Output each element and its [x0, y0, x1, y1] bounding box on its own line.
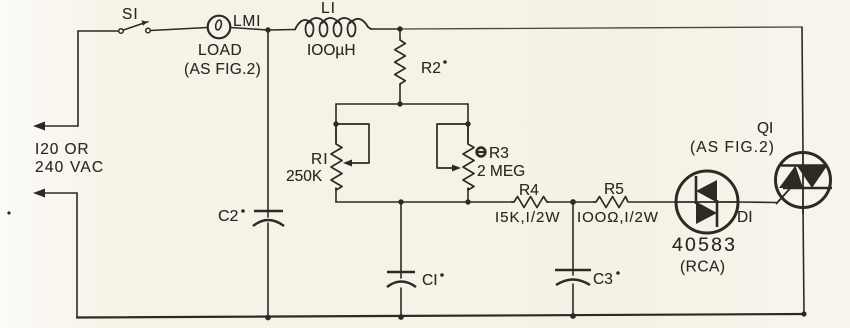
svg-text:QI: QI [757, 120, 773, 137]
wire C1 branch upper [400, 202, 402, 278]
wire C1 branch lower [400, 288, 402, 317]
capacitor C3 [555, 270, 591, 285]
R3 adjust symbol [477, 148, 486, 157]
svg-text:IOOΩ,I/2W: IOOΩ,I/2W [577, 209, 659, 226]
wire inductor to node B [371, 28, 400, 30]
node B junction [397, 26, 402, 31]
resistor R3 (pot) [463, 124, 474, 190]
wire R5 to D1 [628, 201, 676, 203]
svg-text:LMI: LMI [233, 13, 261, 30]
diac D1 [676, 171, 738, 233]
wire C2 branch lower [267, 223, 269, 318]
wire D1 to Q1 gate [738, 201, 776, 204]
wire C3 branch upper [572, 202, 574, 275]
wire AC terminal 2 [40, 192, 77, 194]
wire switch to lamp [151, 28, 208, 31]
wire C2 branch upper [267, 30, 269, 217]
node box-bottom-left junction (R1 to rail) [398, 199, 403, 204]
svg-text:I20 OR: I20 OR [35, 141, 90, 158]
svg-text:CI: CI [422, 272, 438, 289]
svg-text:C3: C3 [593, 271, 613, 288]
wire bottom rail [77, 314, 804, 318]
svg-text:40583: 40583 [672, 234, 737, 256]
wire top right run [400, 27, 802, 29]
svg-text:(AS FIG.2): (AS FIG.2) [184, 61, 261, 78]
svg-text:SI: SI [122, 6, 139, 23]
inductor L1 [295, 18, 371, 37]
node R2-bottom junction [397, 101, 402, 106]
node R1-top junction [333, 121, 338, 126]
R1 wiper arrowhead [343, 160, 352, 167]
wire left lower vertical [76, 193, 78, 318]
wire top-left vertical [77, 31, 79, 126]
resistor R2 [395, 40, 406, 86]
switch S1 [119, 21, 151, 34]
AC arrowhead 1 [33, 122, 45, 131]
node R3-bottom junction [465, 199, 470, 204]
svg-text:(RCA): (RCA) [680, 259, 726, 276]
svg-text:IOOµH: IOOµH [307, 42, 356, 59]
capacitor C2 [253, 211, 284, 226]
wire box top rail [336, 103, 468, 105]
wire lamp to node A [231, 28, 269, 31]
svg-text:240 VAC: 240 VAC [35, 159, 104, 176]
svg-text:C2: C2 [218, 208, 239, 225]
wire R2 leads [399, 29, 401, 104]
node C3 junction [570, 199, 576, 205]
node C1 bottom junction [398, 314, 404, 320]
node C2 bottom junction [265, 315, 271, 321]
lamp LM1 [208, 16, 231, 39]
wire top: corner to switch [78, 30, 118, 32]
wire R4 to R5 [549, 201, 593, 203]
svg-text:RI: RI [311, 151, 329, 168]
resistor R4 [511, 197, 549, 208]
wire box bottom rail [336, 201, 511, 203]
svg-text:DI: DI [737, 209, 753, 226]
resistor R1 (pot) [331, 124, 342, 190]
node A junction [265, 27, 270, 32]
wire right vertical lower [803, 208, 804, 315]
svg-text:LI: LI [321, 0, 336, 17]
resistor R5 [593, 197, 628, 208]
stray ink dot [7, 211, 10, 214]
node Q1 bottom junction [801, 311, 806, 316]
node C3 bottom junction [570, 313, 576, 319]
triac Q1 [776, 153, 833, 215]
wire R3 wiper loop [437, 124, 468, 168]
wire C3 branch lower [572, 284, 574, 316]
svg-text:2 MEG: 2 MEG [477, 163, 525, 180]
R3 wiper arrowhead [452, 165, 461, 172]
svg-text:R5: R5 [604, 181, 624, 198]
AC arrowhead 2 [33, 189, 45, 198]
svg-text:LOAD: LOAD [198, 42, 242, 59]
wire R1 wiper loop [336, 124, 369, 163]
svg-text:R4: R4 [519, 182, 539, 199]
wire box left vertical [335, 104, 337, 142]
capacitor C1 [387, 272, 416, 287]
svg-text:R3: R3 [489, 145, 509, 162]
wire AC terminal 1 [40, 125, 78, 127]
wire R3 bottom lead [467, 188, 469, 202]
svg-text:(AS FIG.2): (AS FIG.2) [690, 139, 775, 156]
wire node A to inductor [268, 29, 295, 32]
wire right vertical upper [802, 27, 803, 153]
svg-text:I5K,I/2W: I5K,I/2W [495, 209, 561, 226]
wire box right vertical [467, 104, 469, 142]
svg-text:250K: 250K [286, 168, 323, 185]
node R3-top junction [465, 121, 470, 126]
wire R1 bottom lead [335, 188, 337, 202]
svg-text:R2: R2 [421, 60, 441, 77]
